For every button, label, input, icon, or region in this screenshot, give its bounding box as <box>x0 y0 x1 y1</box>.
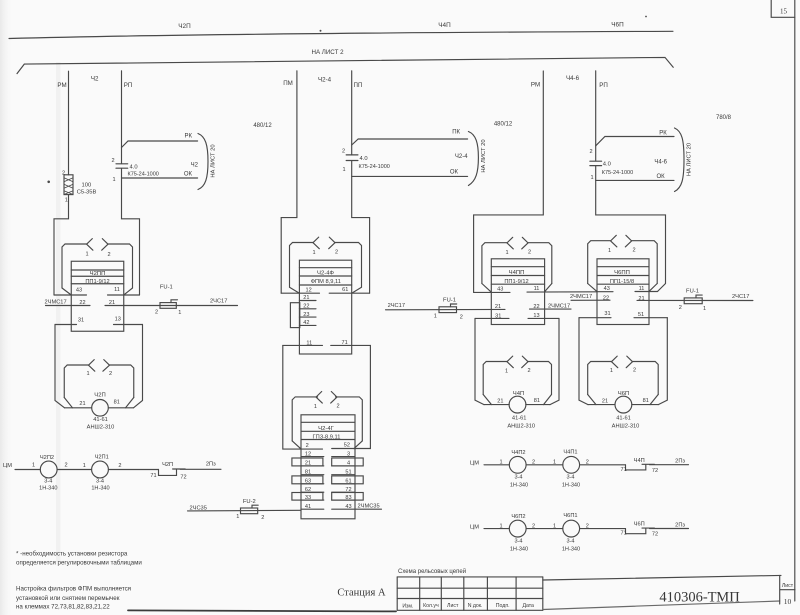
svg-text:Лист: Лист <box>782 583 794 589</box>
svg-text:11: 11 <box>639 286 645 292</box>
svg-text:ЦМ: ЦМ <box>3 463 12 469</box>
title strip top edge <box>543 575 781 580</box>
svg-text:К75-24-1000: К75-24-1000 <box>602 170 633 176</box>
svg-text:11: 11 <box>306 340 312 346</box>
svg-text:71: 71 <box>150 473 156 479</box>
svg-text:2: 2 <box>261 515 264 521</box>
svg-text:2: 2 <box>679 305 682 311</box>
svg-text:43: 43 <box>345 504 351 510</box>
svg-text:31: 31 <box>495 313 501 319</box>
svg-text:Ч2П: Ч2П <box>162 462 173 468</box>
svg-text:21: 21 <box>305 461 311 467</box>
contact 2 of Ч6ПП <box>625 235 631 247</box>
contact Ч4П 71-72 <box>626 464 689 470</box>
svg-text:Ч2-4: Ч2-4 <box>318 77 332 84</box>
jumper box pin 4 <box>332 458 364 466</box>
page right border <box>794 0 796 601</box>
svg-text:52: 52 <box>344 443 350 449</box>
wire РП feed left section <box>122 71 140 295</box>
lead-in diagonals to relay Ч6П <box>588 395 659 405</box>
svg-text:ПК: ПК <box>452 129 460 135</box>
svg-text:41-61: 41-61 <box>616 416 631 422</box>
svg-text:71: 71 <box>341 340 347 346</box>
svg-text:11: 11 <box>534 286 540 292</box>
node dot near Ч6П <box>645 16 647 18</box>
svg-text:1: 1 <box>342 167 345 173</box>
svg-text:1: 1 <box>553 523 556 529</box>
svg-text:72: 72 <box>652 468 658 474</box>
svg-text:51: 51 <box>345 469 351 475</box>
svg-text:НА ЛИСТ 20: НА ЛИСТ 20 <box>211 144 217 177</box>
svg-text:Дата: Дата <box>522 603 534 609</box>
svg-text:Ч6П: Ч6П <box>618 391 629 397</box>
block Ч4ПП dividers <box>491 267 544 285</box>
svg-text:Ч6П2: Ч6П2 <box>511 514 525 520</box>
svg-text:ГПЗ-8,9,11: ГПЗ-8,9,11 <box>313 435 341 441</box>
svg-text:100: 100 <box>82 182 92 188</box>
svg-text:41-61: 41-61 <box>93 417 108 423</box>
svg-text:1: 1 <box>65 197 68 203</box>
svg-text:1: 1 <box>112 177 115 183</box>
contact 1 of Ч6ПП <box>611 235 617 247</box>
block Ч6ПП ПП1-15/8 outline <box>597 259 649 325</box>
svg-text:72: 72 <box>345 487 351 493</box>
svg-text:41: 41 <box>305 504 311 510</box>
svg-text:1: 1 <box>83 463 86 469</box>
block Ч6ПП dividers <box>597 267 649 285</box>
svg-text:63: 63 <box>305 478 311 484</box>
svg-text:1Н-340: 1Н-340 <box>562 547 580 553</box>
node row 12-61 of Ч2-4Ф <box>281 292 369 294</box>
svg-text:3-4: 3-4 <box>96 478 104 484</box>
Лист box <box>780 575 795 604</box>
svg-text:FU-1: FU-1 <box>443 297 456 303</box>
contact 2 of Ч6П box <box>626 356 632 368</box>
svg-text:ПМ: ПМ <box>283 80 293 87</box>
wire relay box verticals Ч2П <box>55 325 143 408</box>
bracket НА ЛИСТ 20 mid <box>468 132 478 186</box>
svg-text:410306-ТМП: 410306-ТМП <box>659 590 740 606</box>
contact Ч2П 71-72 <box>159 469 222 475</box>
svg-text:81: 81 <box>643 398 649 404</box>
svg-text:1: 1 <box>434 314 437 320</box>
svg-text:21: 21 <box>495 304 501 310</box>
contact 1 of Ч4ПП <box>507 237 513 249</box>
svg-text:33: 33 <box>305 495 311 501</box>
svg-text:61: 61 <box>345 478 351 484</box>
title block table <box>397 577 543 610</box>
lead-in diagonals Ч2-4Г <box>292 441 362 449</box>
svg-text:1: 1 <box>553 460 556 466</box>
svg-text:РК: РК <box>185 134 193 140</box>
contact box Ч4П repeat contacts <box>483 362 551 395</box>
capacitor C3 4.0 К75-24-1000 <box>590 161 602 165</box>
svg-text:21: 21 <box>79 401 85 407</box>
svg-text:N док.: N док. <box>468 603 483 609</box>
pin 22 tick <box>299 308 316 310</box>
svg-text:2Пз: 2Пз <box>206 461 216 467</box>
contact box Ч2ПП front contacts <box>62 244 133 288</box>
fuse FU-1 mid <box>439 304 457 313</box>
svg-text:83: 83 <box>345 495 351 501</box>
title strip bottom edge <box>543 601 780 610</box>
svg-text:71: 71 <box>620 531 626 537</box>
wire pin 43 to 2ЧМС35 <box>332 508 382 510</box>
svg-text:Ч2-4Г: Ч2-4Г <box>318 426 334 432</box>
svg-text:Ч6П1: Ч6П1 <box>563 513 577 519</box>
svg-text:1: 1 <box>312 250 315 256</box>
svg-text:на клеммах 72,73,81,82,83,21,2: на клеммах 72,73,81,82,83,21,22 <box>16 604 110 611</box>
svg-text:2ЧС17: 2ЧС17 <box>732 294 749 300</box>
sheet number box 15 <box>771 0 795 17</box>
svg-text:1Н-340: 1Н-340 <box>91 485 109 491</box>
node row 43-11 of Ч4ПП <box>474 291 597 294</box>
svg-text:480/12: 480/12 <box>253 123 272 129</box>
pin row 41-43 ticks <box>301 508 324 510</box>
svg-text:Ч6П: Ч6П <box>634 522 645 528</box>
svg-text:2: 2 <box>586 523 589 529</box>
svg-text:Ч2П: Ч2П <box>94 392 105 398</box>
svg-text:12: 12 <box>305 288 311 294</box>
svg-text:2: 2 <box>62 170 65 176</box>
svg-text:РП: РП <box>599 82 608 89</box>
relay Ч6П2 coil <box>509 520 526 537</box>
svg-text:2: 2 <box>107 252 110 258</box>
fuse FU-2 <box>241 505 259 514</box>
svg-text:2: 2 <box>528 250 531 256</box>
lead-in diagonals to relay Ч2П <box>64 398 134 408</box>
svg-text:43: 43 <box>76 287 82 293</box>
pin row 33-83 ticks <box>301 499 355 501</box>
wire outer loop to ГПЗ <box>283 345 371 449</box>
svg-text:2ЧМС17: 2ЧМС17 <box>45 299 67 305</box>
svg-text:2: 2 <box>155 309 158 315</box>
wire ЦМ row Ч2П2/Ч2П1 <box>15 469 159 471</box>
svg-text:1: 1 <box>499 523 502 529</box>
contact 1 of Ч6П box <box>612 356 618 368</box>
contact box Ч4ПП front contacts <box>482 243 552 284</box>
wire 2ЧС17 FU-1 to pin 21 <box>386 308 506 310</box>
lead-in diagonals Ч6ПП <box>588 284 658 292</box>
contact 1 of Ч2П box <box>89 360 95 372</box>
svg-text:42: 42 <box>303 320 309 326</box>
svg-text:1: 1 <box>314 404 317 410</box>
relay coil terminals Ч4П <box>484 404 550 406</box>
svg-text:71: 71 <box>620 467 626 473</box>
svg-text:НА ЛИСТ 2: НА ЛИСТ 2 <box>311 49 344 56</box>
svg-text:1Н-340: 1Н-340 <box>39 485 57 491</box>
svg-text:21: 21 <box>303 295 309 301</box>
jumper box pin 83 <box>332 493 364 501</box>
svg-text:1: 1 <box>32 463 35 469</box>
wire РК branch right <box>596 137 674 146</box>
svg-text:ОК: ОК <box>450 169 459 175</box>
svg-text:РК: РК <box>659 130 667 136</box>
wire 2ЧМС17 into pin 22 <box>46 305 91 307</box>
svg-text:FU-2: FU-2 <box>243 499 256 505</box>
resistor R* 100 С5-35В <box>64 175 73 195</box>
svg-text:23: 23 <box>303 312 309 318</box>
svg-text:Ч2П1: Ч2П1 <box>95 455 109 461</box>
asterisk footnote mark <box>47 181 50 184</box>
svg-text:21: 21 <box>497 399 503 405</box>
pin 23 tick <box>299 316 316 318</box>
lead-in diagonals Ч2ПП <box>62 288 133 295</box>
relay Ч4П1 coil <box>563 456 580 473</box>
contact box Ч6ПП front contacts <box>588 241 658 284</box>
svg-text:2: 2 <box>527 368 530 374</box>
svg-text:ПП: ПП <box>354 82 363 89</box>
contact 1 of Ч2-4Ф <box>313 237 319 249</box>
wire ОК branch right <box>596 179 674 181</box>
svg-text:1: 1 <box>499 460 502 466</box>
svg-text:2: 2 <box>586 460 589 466</box>
svg-text:1: 1 <box>236 514 239 520</box>
contact 1 of Ч4П box <box>507 356 513 368</box>
wire РМ feed right section <box>474 71 544 292</box>
svg-text:2ЧС35: 2ЧС35 <box>190 505 207 511</box>
svg-text:2: 2 <box>336 403 339 409</box>
svg-text:51: 51 <box>638 312 644 318</box>
svg-text:установкой или снятием перемыч: установкой или снятием перемычек <box>16 595 120 602</box>
svg-text:Ч4П: Ч4П <box>513 391 524 397</box>
svg-text:2Пз: 2Пз <box>675 459 685 465</box>
svg-text:21: 21 <box>109 300 115 306</box>
wire relay box verticals Ч6П <box>579 318 667 405</box>
svg-text:Ч2ПП: Ч2ПП <box>90 271 106 277</box>
svg-text:Ч4П: Ч4П <box>438 22 451 29</box>
jumper box pin 63 <box>292 476 323 484</box>
svg-text:2: 2 <box>589 149 592 155</box>
svg-text:Лист: Лист <box>447 603 459 609</box>
svg-text:1Н-340: 1Н-340 <box>510 547 528 553</box>
pin row 63-61 ticks <box>301 483 355 485</box>
svg-text:2ЧС17: 2ЧС17 <box>388 303 405 309</box>
svg-text:4.0: 4.0 <box>360 156 368 162</box>
relay Ч2П coil <box>92 400 109 417</box>
contact 2 of Ч2-4Ф <box>329 237 335 249</box>
node row 31-13 of Ч2ПП <box>55 324 143 326</box>
svg-text:1: 1 <box>505 368 508 374</box>
svg-text:Ч4-6: Ч4-6 <box>654 159 667 165</box>
wire top bus Ч2П/Ч4П/Ч6П <box>9 31 673 38</box>
block Ч2-4Ф dividers <box>299 268 351 285</box>
svg-text:3-4: 3-4 <box>44 478 52 484</box>
node row 43-11 of Ч6ПП <box>597 291 658 293</box>
block Ч2-4Г ГПЗ-8,9,11 outline <box>301 415 355 519</box>
contact box Ч6П repeat contacts <box>588 362 659 395</box>
relay coil terminals Ч6П <box>588 404 658 406</box>
svg-text:АНШ2-310: АНШ2-310 <box>87 425 115 431</box>
svg-text:Ч6П: Ч6П <box>611 22 624 29</box>
svg-text:10: 10 <box>784 597 792 606</box>
svg-text:2ЧМС17: 2ЧМС17 <box>548 303 570 309</box>
svg-text:Настройка фильтров ФПМ выполня: Настройка фильтров ФПМ выполняется <box>16 586 131 593</box>
svg-text:21: 21 <box>638 296 644 302</box>
svg-text:Подп.: Подп. <box>496 603 510 609</box>
svg-text:2: 2 <box>335 249 338 255</box>
svg-text:1: 1 <box>85 252 88 258</box>
wire ПК branch mid <box>352 139 468 145</box>
svg-text:2: 2 <box>532 460 535 466</box>
svg-text:81: 81 <box>534 398 540 404</box>
wire pin 22 stub 2ЧМС17 right <box>571 299 610 301</box>
svg-text:Ч2П: Ч2П <box>178 23 191 30</box>
svg-text:2: 2 <box>111 158 114 164</box>
block Ч2ПП ПП1-9/12 outline <box>71 261 124 331</box>
svg-text:41-61: 41-61 <box>512 416 527 422</box>
scan bottom edge <box>128 610 396 611</box>
wire ПМ feed mid section <box>281 71 297 293</box>
jumper box pin 33 <box>292 493 323 501</box>
svg-text:К75-24-1000: К75-24-1000 <box>359 164 390 170</box>
contact 2 of Ч2ПП <box>102 239 108 251</box>
relay Ч2П1 coil <box>92 461 109 478</box>
svg-text:43: 43 <box>497 286 503 292</box>
svg-text:21: 21 <box>602 399 608 405</box>
svg-text:780/8: 780/8 <box>716 115 732 121</box>
svg-text:81: 81 <box>114 400 120 406</box>
svg-text:НА ЛИСТ 20: НА ЛИСТ 20 <box>687 143 693 176</box>
contact Ч6П 71-72 <box>626 528 689 534</box>
svg-text:3-4: 3-4 <box>514 475 522 481</box>
svg-text:РМ: РМ <box>57 82 66 89</box>
block Ч2-4Г dividers <box>301 422 355 439</box>
fuse FU-1 right <box>684 295 702 304</box>
svg-text:2: 2 <box>64 463 67 469</box>
svg-text:3-4: 3-4 <box>566 539 574 545</box>
svg-text:Ч2П2: Ч2П2 <box>40 455 54 461</box>
svg-text:2ЧМС17: 2ЧМС17 <box>570 294 592 300</box>
svg-text:ФПМ 8,9,11: ФПМ 8,9,11 <box>311 279 341 285</box>
lead-in diagonals Ч2-4Ф <box>290 287 362 293</box>
wire РК branch left <box>122 141 198 148</box>
contact 1 of Ч2-4Г <box>316 392 322 404</box>
pin row 62-72 ticks <box>301 491 355 493</box>
svg-text:Ч2: Ч2 <box>191 162 199 168</box>
svg-text:72: 72 <box>180 474 186 480</box>
svg-text:1Н-340: 1Н-340 <box>562 483 580 489</box>
relay Ч6П coil <box>615 396 632 413</box>
wire pin 21 to FU-1 to 2ЧС17 <box>637 299 753 301</box>
svg-text:31: 31 <box>78 317 84 323</box>
svg-text:12: 12 <box>305 451 311 457</box>
contact 2 of Ч2П box <box>103 360 110 372</box>
svg-text:43: 43 <box>604 286 610 292</box>
svg-text:480/12: 480/12 <box>494 122 513 128</box>
jumper box pin 21 <box>292 458 323 466</box>
svg-text:2: 2 <box>342 149 345 155</box>
jumper box pin 61 <box>332 476 364 484</box>
svg-text:31: 31 <box>604 311 610 317</box>
block Ч2ПП dividers <box>71 270 124 284</box>
node row 11-71 of Ч2-4Ф <box>283 344 371 346</box>
relay Ч4П coil <box>509 396 526 413</box>
wire ОК branch mid <box>352 175 468 177</box>
svg-text:2Пз: 2Пз <box>675 522 685 528</box>
svg-text:Ч2-4Ф: Ч2-4Ф <box>317 270 334 276</box>
svg-text:1: 1 <box>178 310 181 316</box>
pin row 81-51 ticks <box>301 474 355 476</box>
svg-text:Ч4П: Ч4П <box>634 458 645 464</box>
svg-text:72: 72 <box>652 532 658 538</box>
svg-text:РМ: РМ <box>531 82 540 89</box>
svg-text:3-4: 3-4 <box>514 539 522 545</box>
wire relay box verticals Ч4П <box>475 318 559 404</box>
svg-text:81: 81 <box>305 469 311 475</box>
svg-text:1Н-340: 1Н-340 <box>510 483 528 489</box>
svg-text:РП: РП <box>124 82 133 89</box>
svg-text:НА ЛИСТ 20: НА ЛИСТ 20 <box>481 139 487 172</box>
svg-text:4: 4 <box>347 460 350 466</box>
svg-text:1: 1 <box>505 250 508 256</box>
svg-text:22: 22 <box>603 296 609 302</box>
svg-text:К75-24-1000: К75-24-1000 <box>128 172 159 178</box>
svg-text:4.0: 4.0 <box>130 164 138 170</box>
svg-text:3: 3 <box>347 451 350 457</box>
svg-text:15: 15 <box>780 8 788 16</box>
svg-text:ЦМ: ЦМ <box>470 461 479 467</box>
svg-text:FU-1: FU-1 <box>160 285 173 291</box>
node row 31-51 of Ч6ПП <box>579 317 667 319</box>
svg-text:Кол.уч: Кол.уч <box>423 603 439 609</box>
block Ч4ПП ПП1-9/12 outline <box>491 259 544 325</box>
svg-text:22: 22 <box>533 304 539 310</box>
relay Ч2П2 coil <box>40 461 57 478</box>
svg-text:определяется регулировочными т: определяется регулировочными таблицами <box>16 560 142 567</box>
jumper box on pins 22-42 <box>290 303 299 328</box>
bracket НА ЛИСТ 20 right <box>675 128 685 192</box>
svg-text:ЦМ: ЦМ <box>470 524 479 530</box>
svg-text:FU-1: FU-1 <box>686 288 699 294</box>
svg-text:1: 1 <box>608 248 611 254</box>
svg-text:13: 13 <box>533 313 539 319</box>
svg-text:Ч4ПП: Ч4ПП <box>509 270 525 276</box>
svg-text:11: 11 <box>114 287 120 293</box>
svg-text:1: 1 <box>610 368 613 374</box>
svg-text:Изм.: Изм. <box>402 603 413 609</box>
svg-text:13: 13 <box>115 317 121 323</box>
wire pin 22 stub 2ЧМС17 <box>530 308 572 310</box>
svg-text:АНШ2-310: АНШ2-310 <box>612 424 640 430</box>
relay Ч4П2 coil <box>509 456 526 473</box>
svg-text:Ч4П1: Ч4П1 <box>563 449 577 455</box>
relay Ч6П1 coil <box>563 520 580 537</box>
wire РП feed right section <box>596 71 666 292</box>
svg-text:Ч2: Ч2 <box>91 76 99 83</box>
svg-text:2ЧС17: 2ЧС17 <box>210 298 227 304</box>
node row 43-11 of Ч2ПП <box>54 294 140 296</box>
svg-text:1: 1 <box>703 306 706 312</box>
svg-text:1: 1 <box>86 371 89 377</box>
relay coil terminals Ч2П <box>65 407 134 409</box>
svg-text:2: 2 <box>632 248 635 254</box>
svg-text:С5-35В: С5-35В <box>77 189 97 195</box>
svg-text:ОК: ОК <box>657 174 666 180</box>
wire РМ feed left section <box>54 71 69 295</box>
capacitor C1 4.0 К75-24-1000 <box>116 164 128 168</box>
svg-text:1: 1 <box>590 175 593 181</box>
wire ЦМ row Ч6П2/Ч6П1 <box>484 528 626 530</box>
svg-text:61: 61 <box>342 287 348 293</box>
node row 31-13 of Ч4ПП <box>475 317 559 319</box>
svg-text:Ч2-4: Ч2-4 <box>455 154 468 160</box>
contact 2 of Ч2-4Г <box>331 392 337 404</box>
svg-text:22: 22 <box>303 304 309 310</box>
svg-text:Ч6ПП: Ч6ПП <box>614 270 630 276</box>
svg-text:Ч4-6: Ч4-6 <box>566 75 580 82</box>
fuse FU-1 left <box>160 300 178 309</box>
